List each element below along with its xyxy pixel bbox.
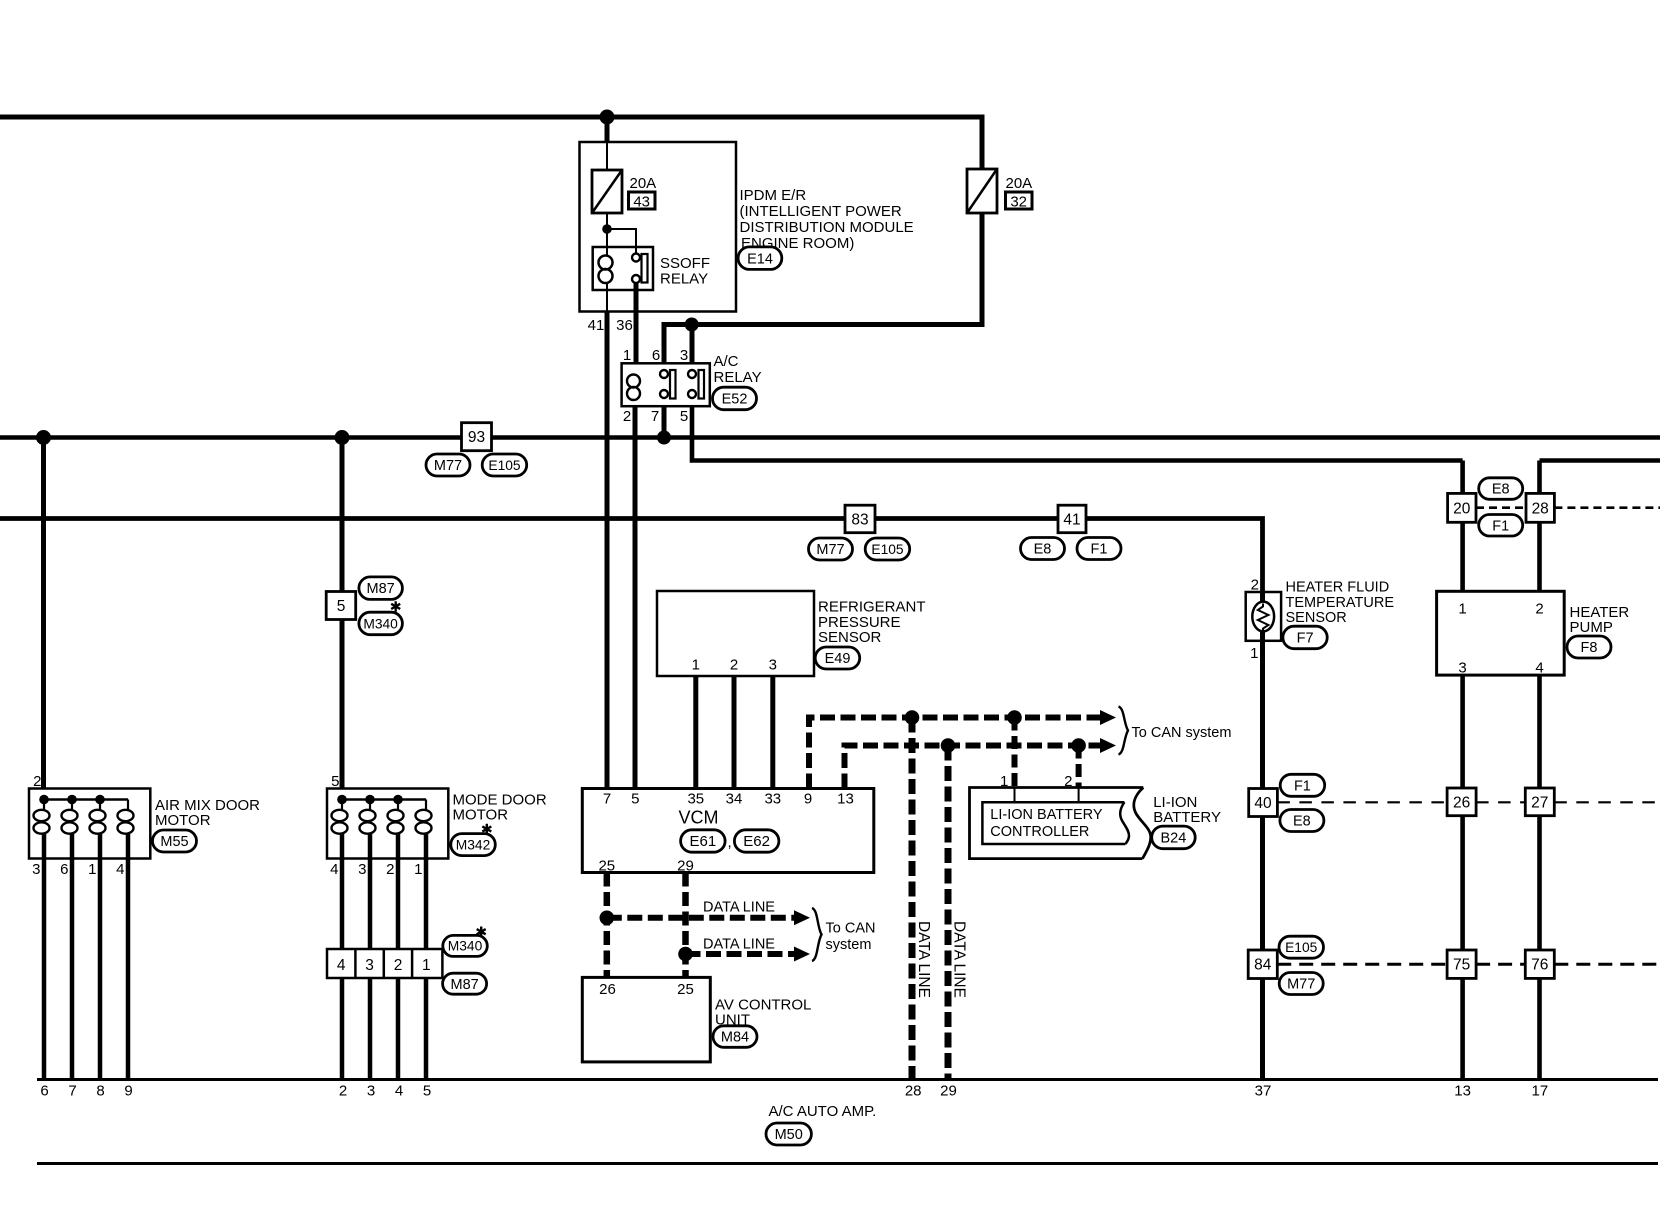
air mix coil 1 xyxy=(34,800,50,859)
svg-text:9: 9 xyxy=(804,791,812,808)
svg-text:40: 40 xyxy=(1254,795,1272,812)
fuse number box 32 xyxy=(1006,192,1033,211)
wire A/C relay pin2 to VCM pin5 xyxy=(633,406,638,789)
junction node CAN1/li-ion pin1 xyxy=(1007,710,1022,725)
svg-text:To CAN: To CAN xyxy=(826,921,876,937)
svg-text:VCM: VCM xyxy=(679,808,719,828)
label LI-ION BATTERY CONTROLLER xyxy=(990,807,1103,840)
svg-text:M342: M342 xyxy=(456,837,491,852)
wire node to SSOFF relay coil (thin) xyxy=(606,229,608,255)
wire IPDM pin41 to VCM pin7 xyxy=(605,311,610,789)
dashed link 20-28 xyxy=(1476,506,1526,509)
svg-text:27: 27 xyxy=(1531,794,1548,811)
svg-text:1: 1 xyxy=(1458,601,1466,618)
svg-text:system: system xyxy=(826,937,872,953)
connector M77 (bus3) xyxy=(809,538,853,560)
svg-text:1: 1 xyxy=(1000,773,1008,790)
junction node fuse43 output xyxy=(602,224,612,234)
wire fuse 32 output down and left to A/C relay xyxy=(664,213,982,364)
svg-text:1: 1 xyxy=(88,861,96,878)
wire CAN2 to li-ion pin2 xyxy=(1076,746,1082,788)
li-ion pin labels xyxy=(1000,773,1072,790)
air mix door motor box xyxy=(29,789,150,859)
junction node bus2 / mode motor xyxy=(335,430,350,445)
svg-text:41: 41 xyxy=(1063,511,1080,528)
svg-text:26: 26 xyxy=(1453,794,1470,811)
svg-text:2: 2 xyxy=(386,861,394,878)
air mix pin labels bottom xyxy=(32,861,124,878)
svg-text:CONTROLLER: CONTROLLER xyxy=(990,824,1089,840)
svg-text:3: 3 xyxy=(358,861,366,878)
svg-text:29: 29 xyxy=(940,1083,957,1100)
svg-text:E8: E8 xyxy=(1492,482,1510,498)
svg-text:75: 75 xyxy=(1453,957,1470,974)
svg-text:BATTERY: BATTERY xyxy=(1153,809,1221,826)
svg-text:7: 7 xyxy=(651,408,659,425)
connector B24 xyxy=(1152,826,1196,849)
wire sensor pin3 to VCM xyxy=(770,676,775,789)
heater pump feed bus right xyxy=(1540,458,1660,463)
svg-text:M87: M87 xyxy=(450,977,478,993)
mode coil 2 xyxy=(360,800,376,859)
svg-text:4: 4 xyxy=(395,1083,403,1100)
li-ion controller inner torn edge xyxy=(1120,802,1129,844)
mode pin labels bottom xyxy=(330,861,422,878)
connector box 26 xyxy=(1447,788,1476,816)
svg-text:TEMPERATURE: TEMPERATURE xyxy=(1286,595,1395,611)
heater fluid temp sensor box xyxy=(1246,592,1281,641)
svg-text:20A: 20A xyxy=(630,175,657,192)
li-ion controller inner box xyxy=(982,802,1125,844)
svg-text:E61: E61 xyxy=(690,833,717,850)
SSOFF relay contact circles xyxy=(632,254,640,284)
power bus 3 (lower) xyxy=(0,519,1263,593)
svg-text:7: 7 xyxy=(68,1083,76,1100)
SSOFF relay box xyxy=(593,247,653,290)
svg-text:A/C: A/C xyxy=(714,353,739,370)
AV pin labels xyxy=(599,981,694,998)
wire box28 to pump pin2 xyxy=(1537,522,1542,591)
connector box 84 xyxy=(1248,950,1277,979)
junction node bus2 / air mix motor xyxy=(36,430,51,445)
wire bus2 to air mix door motor pin2 xyxy=(41,438,46,789)
air mix coil 2 xyxy=(62,800,78,859)
wire A/C relay pin7 to bus xyxy=(662,406,667,438)
connector M84 xyxy=(713,1026,757,1048)
svg-text:E105: E105 xyxy=(1285,940,1318,955)
svg-text:F8: F8 xyxy=(1581,640,1598,656)
air mix coil 3 xyxy=(90,800,106,859)
wire air mix pin4 to amp xyxy=(126,859,131,1080)
connector M55 xyxy=(153,830,197,852)
wire strip pin3 to amp xyxy=(368,978,373,1080)
svg-text:3: 3 xyxy=(680,347,688,364)
connector box 20 xyxy=(1448,493,1476,522)
data line arrowhead 2 xyxy=(794,947,810,962)
svg-text:3: 3 xyxy=(1458,660,1466,677)
svg-text:5: 5 xyxy=(631,791,639,808)
label To CAN system (mid) xyxy=(826,921,876,954)
connector E8 (bus3) xyxy=(1021,538,1065,560)
svg-text:M77: M77 xyxy=(816,542,844,558)
svg-text:6: 6 xyxy=(60,861,68,878)
svg-text:83: 83 xyxy=(851,511,868,528)
svg-text:REFRIGERANT: REFRIGERANT xyxy=(818,599,926,616)
wire air mix pin3 to amp xyxy=(42,859,47,1080)
wire mode pin4 to strip xyxy=(340,859,345,950)
heater fluid temp sensor element xyxy=(1252,602,1274,632)
svg-text:M87: M87 xyxy=(366,581,394,597)
svg-text:M77: M77 xyxy=(1287,977,1315,993)
junction node CAN1/data line 28 xyxy=(905,710,920,725)
wire mode pin2 to strip xyxy=(396,859,401,950)
svg-text:LI-ION BATTERY: LI-ION BATTERY xyxy=(990,807,1103,823)
svg-text:M340: M340 xyxy=(363,616,398,631)
wire air mix pin1 to amp xyxy=(98,859,103,1080)
svg-text:E49: E49 xyxy=(825,651,851,667)
svg-text:3: 3 xyxy=(769,657,777,674)
air mix internal node 1 xyxy=(39,795,49,805)
dashed link 75-76 xyxy=(1476,963,1525,966)
A/C relay contact 6-7 xyxy=(660,370,676,399)
data line 28 vertical xyxy=(909,718,916,1080)
dashed link 26-27 xyxy=(1476,801,1525,803)
A/C relay coil xyxy=(627,375,640,401)
dashed link 40-26 xyxy=(1277,801,1447,803)
junction node data line 1 xyxy=(600,911,615,926)
wire down to box 20 xyxy=(1460,461,1465,494)
power bus 2 (middle) xyxy=(0,435,1660,440)
mode coil 4 xyxy=(416,800,432,859)
connector F1 (box40) xyxy=(1280,774,1325,796)
connector M87 (mode wire) xyxy=(359,577,403,600)
wire air mix pin6 to amp xyxy=(70,859,75,1080)
svg-text:2: 2 xyxy=(730,657,738,674)
SSOFF relay coil bottom wire (thin) xyxy=(606,283,608,311)
svg-text:8: 8 xyxy=(96,1083,104,1100)
dashed link 28-edge xyxy=(1554,506,1660,509)
connector box 5 on mode wire xyxy=(326,592,356,620)
svg-text:,: , xyxy=(728,834,732,851)
A/C relay pin labels bottom xyxy=(623,408,688,425)
svg-text:RELAY: RELAY xyxy=(714,369,762,386)
wire li-ion pin2 internal xyxy=(1078,788,1080,803)
svg-text:M55: M55 xyxy=(160,834,188,850)
wire box75 to amp pin13 xyxy=(1460,978,1465,1079)
connector E14 xyxy=(738,247,782,270)
svg-text:SENSOR: SENSOR xyxy=(1286,610,1347,626)
connector F7 xyxy=(1283,626,1327,649)
svg-text:F1: F1 xyxy=(1294,778,1311,794)
dashed link 76-edge xyxy=(1554,963,1660,966)
svg-text:17: 17 xyxy=(1532,1083,1549,1100)
svg-text:E62: E62 xyxy=(743,833,770,850)
wire fuse 43 to node (thin) xyxy=(606,213,608,229)
svg-text:34: 34 xyxy=(726,791,743,808)
svg-text:2: 2 xyxy=(394,957,403,974)
connector box 41 on bus3 xyxy=(1058,505,1086,533)
connector M87 (strip) xyxy=(443,973,487,994)
wire strip pin4 to amp xyxy=(340,978,345,1080)
svg-text:E8: E8 xyxy=(1034,542,1052,558)
li-ion battery outer torn edge xyxy=(1134,788,1151,859)
wire strip pin1 to amp xyxy=(424,978,429,1080)
svg-text:5: 5 xyxy=(423,1083,431,1100)
heater pump box xyxy=(1437,591,1565,675)
svg-text:35: 35 xyxy=(687,791,704,808)
amp pin labels left xyxy=(40,1083,132,1100)
svg-text:B24: B24 xyxy=(1160,831,1186,847)
svg-text:2: 2 xyxy=(1064,773,1072,790)
wire box84 to amp pin37 xyxy=(1260,978,1265,1079)
SSOFF relay coil xyxy=(599,256,613,284)
wire IPDM pin36 to A/C relay pin1 xyxy=(634,284,639,364)
svg-text:6: 6 xyxy=(652,347,660,364)
svg-text:1: 1 xyxy=(692,657,700,674)
connector E105 (bus3) xyxy=(865,538,910,560)
svg-text:41: 41 xyxy=(588,317,605,334)
data line VCM pin25 to AV pin26 xyxy=(604,873,611,978)
CAN line 1 arrowhead xyxy=(1100,710,1116,725)
label A/C RELAY xyxy=(714,353,762,386)
wire box76 to amp pin17 xyxy=(1537,978,1542,1079)
wire A/C relay pin5 to heater pump feed xyxy=(692,406,1463,461)
svg-text:DATA LINE: DATA LINE xyxy=(703,937,775,953)
dashed link 27-edge xyxy=(1554,801,1660,803)
connector M340 (mode wire) xyxy=(359,612,403,635)
wire li-ion pin1 internal xyxy=(1014,788,1016,803)
AV control unit box xyxy=(582,977,710,1062)
svg-text:DATA LINE: DATA LINE xyxy=(703,900,775,916)
svg-text:28: 28 xyxy=(905,1083,922,1100)
label HEATER FLUID TEMPERATURE SENSOR xyxy=(1286,580,1395,627)
wire sensor pin1 to VCM xyxy=(693,676,698,789)
svg-text:32: 32 xyxy=(1010,194,1027,211)
svg-text:9: 9 xyxy=(124,1083,132,1100)
svg-text:84: 84 xyxy=(1254,957,1272,974)
data line arrowhead 1 xyxy=(794,910,810,925)
svg-text:E52: E52 xyxy=(722,392,748,408)
air mix motor internal bus xyxy=(44,798,128,800)
svg-text:MOTOR: MOTOR xyxy=(155,812,211,829)
connector E105 (bus2) xyxy=(482,454,527,476)
svg-text:IPDM E/R: IPDM E/R xyxy=(740,187,807,204)
svg-text:To CAN system: To CAN system xyxy=(1132,725,1232,741)
label SSOFF RELAY xyxy=(660,255,710,288)
svg-text:M50: M50 xyxy=(775,1127,803,1143)
connector E52 xyxy=(713,387,757,410)
CAN line 2 arrowhead xyxy=(1100,738,1116,753)
air mix internal node 3 xyxy=(95,795,105,805)
connector E8 (box40) xyxy=(1280,810,1324,832)
asterisk near M340 (mode wire) xyxy=(391,601,400,611)
wire sensor pin2 to VCM xyxy=(732,676,737,789)
data line arrow 1 xyxy=(607,915,795,921)
connector box 27 xyxy=(1525,788,1554,816)
svg-text:36: 36 xyxy=(616,317,633,334)
connector box 83 on bus3 xyxy=(845,505,875,533)
svg-text:4: 4 xyxy=(337,957,346,974)
label HEATER PUMP xyxy=(1570,604,1630,636)
mode internal node 1 xyxy=(337,795,347,805)
svg-text:4: 4 xyxy=(1535,660,1543,677)
svg-text:25: 25 xyxy=(677,981,694,998)
svg-text:28: 28 xyxy=(1532,500,1549,517)
svg-text:20: 20 xyxy=(1453,500,1471,517)
wire riser to A/C relay pin 3 xyxy=(690,325,695,364)
amp pin labels data xyxy=(905,1083,957,1100)
intermediate connector strip 4-3-2-1 xyxy=(327,949,442,978)
A/C relay contact 3-5 xyxy=(688,370,704,399)
svg-text:E8: E8 xyxy=(1293,814,1311,830)
dashed link 84-75 xyxy=(1277,963,1447,966)
connector box 28 xyxy=(1526,493,1554,522)
connector M77 (box84) xyxy=(1279,973,1323,995)
wire bus3 to heater fluid temp sensor xyxy=(1260,592,1265,789)
mode motor internal bus xyxy=(342,798,426,800)
junction node on A/C relay feed xyxy=(685,318,699,332)
connector E62 xyxy=(734,830,779,852)
connector M77 (bus2) xyxy=(426,454,470,476)
junction node top bus / fuse 43 tap xyxy=(600,110,615,125)
svg-text:3: 3 xyxy=(32,861,40,878)
svg-text:F1: F1 xyxy=(1492,518,1509,534)
IPDM E/R enclosure box xyxy=(580,142,737,312)
svg-text:M77: M77 xyxy=(434,458,462,474)
label IPDM E/R name xyxy=(740,187,914,252)
wire mode pin1 to strip xyxy=(424,859,429,950)
label AIR MIX DOOR MOTOR xyxy=(155,797,260,829)
svg-text:2: 2 xyxy=(1535,601,1543,618)
connector E8 (top right) xyxy=(1479,478,1523,500)
svg-text:2: 2 xyxy=(1251,577,1259,594)
wire fuse 43 feed (thin) xyxy=(606,142,608,170)
SSOFF relay contact bar xyxy=(642,254,648,283)
svg-text:MOTOR: MOTOR xyxy=(453,807,509,824)
A/C auto amp bus xyxy=(37,1078,1658,1081)
svg-text:1: 1 xyxy=(1250,645,1258,662)
svg-text:13: 13 xyxy=(837,791,854,808)
sensor pin labels xyxy=(692,657,777,674)
label MODE DOOR MOTOR xyxy=(453,792,547,824)
bottom separator line xyxy=(37,1162,1658,1165)
svg-text:A/C AUTO AMP.: A/C AUTO AMP. xyxy=(769,1103,877,1120)
connector box 93 on bus2 xyxy=(462,423,492,451)
mode door motor box xyxy=(327,789,448,859)
A/C relay box xyxy=(622,363,710,406)
svg-text:43: 43 xyxy=(633,194,650,211)
svg-text:5: 5 xyxy=(337,598,346,615)
svg-text:33: 33 xyxy=(764,791,781,808)
connector E49 xyxy=(815,647,860,669)
junction node CAN2/li-ion pin2 xyxy=(1071,738,1086,753)
wire box5 to mode motor pin5 xyxy=(340,620,345,789)
wire pump pin3 to box75 xyxy=(1460,675,1465,950)
air mix internal node 2 xyxy=(67,795,77,805)
junction node data line 2 xyxy=(678,947,693,962)
svg-text:7: 7 xyxy=(603,791,611,808)
svg-text:DATA LINE: DATA LINE xyxy=(951,921,968,998)
wire strip pin2 to amp xyxy=(396,978,401,1080)
fuse 43 (20A) symbol xyxy=(592,170,622,213)
svg-text:SSOFF: SSOFF xyxy=(660,255,710,272)
data line arrow 2 xyxy=(686,951,796,957)
mode coil 3 xyxy=(388,800,404,859)
asterisk near M340 (strip) xyxy=(477,927,486,937)
brace to CAN system (mid) xyxy=(812,908,822,961)
connector F1 (top right) xyxy=(1479,515,1523,537)
svg-text:93: 93 xyxy=(468,429,485,446)
svg-text:F7: F7 xyxy=(1297,631,1314,647)
svg-text:76: 76 xyxy=(1531,957,1548,974)
wire mode pin3 to strip xyxy=(368,859,373,950)
connector box 40 xyxy=(1249,789,1278,817)
svg-text:1: 1 xyxy=(414,861,422,878)
connector M342 xyxy=(451,834,496,856)
svg-text:E105: E105 xyxy=(488,458,521,473)
refrigerant pressure sensor box xyxy=(657,591,814,676)
wire node to SSOFF relay contact (thin) xyxy=(607,229,636,253)
svg-text:(INTELLIGENT POWER: (INTELLIGENT POWER xyxy=(740,203,902,220)
wire tap down to IPDM xyxy=(605,117,610,143)
connector E105 (box84) xyxy=(1279,936,1324,958)
svg-text:13: 13 xyxy=(1454,1083,1471,1100)
brace to CAN system (top) xyxy=(1119,707,1129,755)
amp pin labels mode xyxy=(339,1083,431,1100)
A/C relay pin labels top xyxy=(623,347,688,364)
VCM pin labels bottom xyxy=(598,858,693,875)
svg-text:E105: E105 xyxy=(871,542,904,557)
mode internal node 2 xyxy=(365,795,375,805)
wire down to box 28 xyxy=(1537,461,1542,494)
wire box20 to pump pin1 xyxy=(1460,522,1465,591)
fuse 32 (20A) symbol xyxy=(967,169,997,213)
wire CAN1 to li-ion pin1 xyxy=(1012,718,1018,788)
svg-text:25: 25 xyxy=(598,858,615,875)
VCM pin labels top xyxy=(603,791,854,808)
svg-text:37: 37 xyxy=(1255,1083,1272,1100)
svg-text:M340: M340 xyxy=(448,939,483,954)
svg-text:RELAY: RELAY xyxy=(660,271,708,288)
svg-text:26: 26 xyxy=(599,981,616,998)
VCM box xyxy=(582,789,874,873)
svg-text:M84: M84 xyxy=(721,1030,749,1046)
data line VCM pin29 to AV pin25 xyxy=(682,873,689,978)
junction node CAN2/data line 29 xyxy=(941,738,956,753)
asterisk near M342 xyxy=(482,824,491,834)
wire pump pin4 to box76 xyxy=(1537,675,1542,950)
svg-text:DATA LINE: DATA LINE xyxy=(915,921,932,998)
fuse number box 43 xyxy=(629,192,656,211)
connector box 75 xyxy=(1447,950,1476,978)
heater pump pin labels xyxy=(1458,601,1543,677)
svg-text:4: 4 xyxy=(330,861,338,878)
svg-text:3: 3 xyxy=(367,1083,375,1100)
svg-text:2: 2 xyxy=(623,408,631,425)
svg-text:5: 5 xyxy=(680,408,688,425)
svg-text:F1: F1 xyxy=(1091,542,1108,558)
mode coil 1 xyxy=(332,800,348,859)
svg-text:E14: E14 xyxy=(747,251,773,267)
junction node bus2 / A-C relay pin7 xyxy=(657,431,671,445)
svg-text:29: 29 xyxy=(677,858,694,875)
wire battery feed bus (top) xyxy=(0,117,982,169)
CAN line 2 from VCM pin13 xyxy=(845,746,1102,789)
mode internal node 3 xyxy=(393,795,403,805)
svg-text:2: 2 xyxy=(339,1083,347,1100)
svg-text:4: 4 xyxy=(116,861,124,878)
CAN line 1 from VCM pin9 xyxy=(809,718,1101,789)
